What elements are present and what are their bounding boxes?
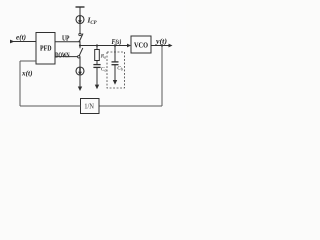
feedback wire bottom left (20, 105, 81, 107)
wire switch DOWN to current source I2 (79, 57, 81, 67)
capacitor Cb (112, 62, 119, 65)
arrowhead into VCO (127, 44, 131, 48)
svg-text:Ra: Ra (100, 54, 106, 60)
capacitor Ca (93, 65, 100, 68)
switch S-DOWN (lever + contact) (78, 48, 83, 58)
ground arrow under Ca (95, 85, 99, 90)
ground arrow under I2 (78, 87, 82, 92)
svg-text:x(t): x(t) (21, 70, 33, 78)
VCO box (131, 36, 151, 53)
wire PFD UP output (55, 41, 79, 43)
svg-text:e(t): e(t) (16, 33, 26, 41)
node charge-pump output (79, 44, 81, 46)
wire input to PFD (10, 41, 36, 43)
node filter branch 1 (96, 44, 98, 46)
switch S-UP (contact + lever) (78, 33, 83, 42)
supply rail VDD (76, 7, 85, 16)
feedback wire right vertical (161, 46, 163, 107)
wire resistor to capacitor Ca (96, 61, 98, 65)
wire to resistor Ra (96, 46, 98, 50)
wire switch UP to node (79, 42, 81, 49)
output wire y(t) (151, 45, 169, 47)
node output feedback tap (161, 44, 163, 46)
ground arrow under Cb (113, 80, 117, 85)
wire capacitor Ca to ground (96, 68, 98, 86)
svg-text:y(t): y(t) (155, 37, 167, 45)
svg-text:F(s): F(s) (112, 38, 122, 46)
PFD box (36, 33, 55, 65)
feedback wire bottom right (99, 105, 162, 107)
main wire node to VCO (80, 45, 128, 47)
svg-text:PFD: PFD (40, 43, 52, 52)
input arrow e(t) (10, 40, 15, 44)
wire I2 to ground (79, 75, 81, 87)
svg-text:1/N: 1/N (84, 104, 94, 111)
svg-text:Cb: Cb (117, 66, 123, 72)
resistor Ra (95, 50, 100, 61)
feedback wire left vertical (19, 61, 21, 106)
node filter branch 2 (114, 44, 116, 46)
svg-text:Ca: Ca (101, 67, 107, 73)
wire capacitor Cb to ground (114, 65, 116, 81)
feedback wire into PFD (20, 60, 36, 62)
current source I2 (Icp down) (76, 67, 84, 75)
wire current source I1 to switch UP (79, 24, 81, 34)
output arrowhead (169, 44, 173, 48)
wire to capacitor Cb (114, 46, 116, 63)
dashed box optional C2 (107, 52, 125, 88)
divider 1/N box (81, 99, 100, 114)
svg-text:VCO: VCO (134, 41, 148, 49)
current source I1 (Icp up) (76, 16, 84, 24)
wire PFD DOWN output (55, 56, 78, 58)
svg-text:DOWN: DOWN (55, 52, 70, 60)
